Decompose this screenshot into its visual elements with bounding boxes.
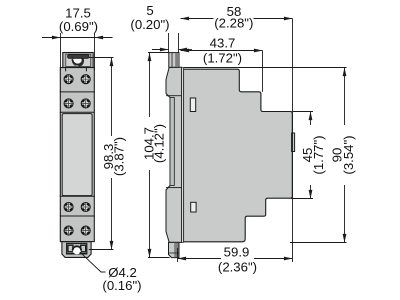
dim 58 line bbox=[181, 18, 214, 20]
dim 17.5 extension left bbox=[60, 33, 62, 70]
side slot lower bbox=[191, 202, 196, 212]
bottom clamp tab bbox=[62, 242, 91, 258]
terminal divider line lower-body bbox=[60, 195, 94, 197]
bezel divider bottom bbox=[166, 187, 182, 189]
svg-text:(4.12"): (4.12") bbox=[152, 124, 167, 163]
dim 58 extension right bbox=[292, 19, 294, 263]
dim 43.7 line bbox=[181, 50, 263, 52]
side back bump bbox=[292, 133, 295, 152]
screw T4 bbox=[81, 99, 90, 108]
dim 90 arrow top bbox=[343, 68, 347, 77]
dim 59.9 line bbox=[178, 258, 222, 260]
top clamp tab bbox=[63, 53, 93, 68]
terminal divider line upper-body bbox=[60, 111, 94, 113]
dim 43.7 arrow right bbox=[254, 49, 263, 53]
svg-text:(0.69"): (0.69") bbox=[59, 19, 98, 34]
dim 59.9 arrow left bbox=[178, 257, 187, 261]
bezel divider top bbox=[166, 95, 182, 97]
dim 98.3 line bbox=[111, 58, 113, 137]
dim 104.7 arrow top bbox=[148, 53, 152, 62]
side slot upper bbox=[190, 98, 195, 112]
dim 90 bottom reference bbox=[290, 242, 347, 244]
screw B1 bbox=[64, 203, 73, 212]
dim 5 arrow left bbox=[160, 48, 169, 52]
screw B4 bbox=[81, 226, 90, 235]
dim 45 top reference bbox=[293, 111, 314, 113]
screw T1 bbox=[64, 75, 73, 84]
dim 104.7 arrow bottom bbox=[148, 249, 152, 258]
dim 58 arrow left bbox=[181, 17, 190, 21]
svg-text:(2.28"): (2.28") bbox=[214, 15, 253, 30]
svg-text:(3.54"): (3.54") bbox=[341, 135, 356, 174]
bottom clamp hole bbox=[73, 246, 82, 255]
bezel bottom tab bbox=[169, 242, 180, 257]
terminal divider line top bbox=[60, 91, 94, 93]
terminal divider line bottom bbox=[60, 215, 94, 217]
bezel waist band bbox=[170, 98, 174, 186]
dim hole leader bbox=[80, 252, 106, 272]
dim 17.5 arrow left bbox=[52, 36, 61, 40]
svg-text:(3.87"): (3.87") bbox=[112, 137, 127, 176]
dim 17.5 arrow right bbox=[95, 36, 104, 40]
dim 45 line bbox=[310, 112, 312, 126]
dim 43.7 extension right bbox=[262, 51, 264, 93]
side body bbox=[184, 69, 293, 242]
dim 98.3 arrow top bbox=[110, 58, 114, 67]
bezel gap band bbox=[182, 67, 184, 242]
dim 90 arrow bottom bbox=[343, 234, 347, 243]
dim 5 extension right bbox=[178, 33, 180, 53]
dim 90 top reference bbox=[184, 67, 347, 69]
dim 58 arrow right bbox=[284, 17, 293, 21]
svg-text:(1.72"): (1.72") bbox=[203, 51, 242, 66]
bezel top tab bbox=[169, 53, 179, 68]
dim 17.5 extension right bbox=[94, 33, 96, 70]
dim 90 line bbox=[344, 68, 346, 126]
dim 104.7 line bbox=[149, 53, 151, 118]
svg-text:(2.36"): (2.36") bbox=[218, 260, 257, 275]
dim 45 bottom reference bbox=[291, 198, 313, 200]
dim 98.3 arrow bottom bbox=[110, 241, 114, 250]
svg-text:(0.20"): (0.20") bbox=[130, 17, 169, 32]
svg-text:(0.16"): (0.16") bbox=[102, 278, 141, 293]
front panel bbox=[62, 114, 92, 196]
dim 104.7 top reference bbox=[148, 52, 169, 54]
terminal top notch marks bbox=[65, 68, 67, 71]
dim 45 arrow bottom bbox=[309, 190, 313, 199]
dim 104.7 bottom reference bbox=[148, 257, 170, 259]
screw B2 bbox=[81, 203, 90, 212]
screw T2 bbox=[81, 75, 90, 84]
dim 98.3 bottom reference bbox=[89, 249, 114, 251]
dim 43.7 arrow left bbox=[181, 49, 190, 53]
dim 17.5 line bbox=[42, 37, 113, 39]
svg-text:(1.77"): (1.77") bbox=[311, 135, 326, 174]
dim 5 line bbox=[152, 49, 169, 51]
screw T3 bbox=[64, 99, 73, 108]
front bezel strip bbox=[166, 67, 182, 242]
dim 5 arrow right bbox=[179, 48, 188, 52]
screw B3 bbox=[64, 226, 73, 235]
svg-text:5: 5 bbox=[146, 3, 153, 18]
dim 59.9 extension left bbox=[177, 248, 179, 262]
svg-text:43.7: 43.7 bbox=[210, 36, 236, 51]
dim 98.3 top reference bbox=[89, 57, 114, 59]
dim 5 extension left bbox=[168, 33, 170, 53]
terminal block body bbox=[60, 68, 94, 242]
dim 45 arrow top bbox=[309, 112, 313, 121]
top clamp screw hole bbox=[72, 56, 83, 67]
svg-text:59.9: 59.9 bbox=[224, 245, 250, 260]
top clamp spring bar bbox=[68, 55, 89, 59]
dim 59.9 arrow right bbox=[284, 257, 293, 261]
